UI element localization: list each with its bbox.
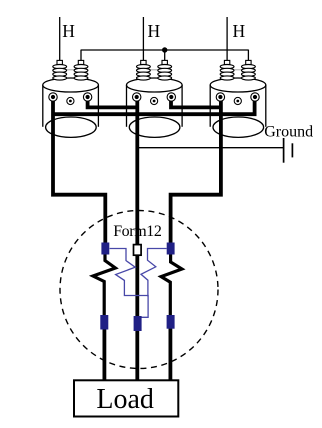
svg-text:H: H	[148, 21, 161, 41]
svg-text:H: H	[62, 21, 75, 41]
svg-text:Load: Load	[96, 384, 154, 415]
svg-text:H: H	[233, 21, 246, 41]
svg-text:Ground: Ground	[264, 124, 313, 141]
